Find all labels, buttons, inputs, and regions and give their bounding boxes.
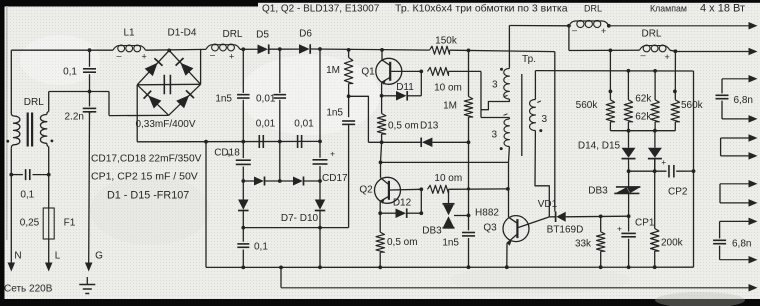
svg-text:2.2n: 2.2n bbox=[65, 112, 84, 123]
svg-text:DB3: DB3 bbox=[422, 226, 442, 237]
svg-text:0,33mF/400V: 0,33mF/400V bbox=[135, 119, 195, 130]
svg-text:L: L bbox=[55, 251, 61, 262]
svg-text:DRL: DRL bbox=[222, 29, 242, 40]
svg-text:–: – bbox=[117, 50, 122, 60]
svg-text:Q2: Q2 bbox=[359, 185, 373, 196]
svg-text:3: 3 bbox=[542, 114, 548, 125]
svg-text:–: – bbox=[641, 50, 646, 60]
svg-text:150k: 150k bbox=[435, 36, 458, 47]
svg-text:+: + bbox=[330, 149, 335, 159]
svg-text:1M: 1M bbox=[326, 65, 340, 76]
svg-text:CD17,CD18 22mF/350V: CD17,CD18 22mF/350V bbox=[91, 154, 202, 165]
svg-text:+: + bbox=[601, 26, 606, 36]
svg-text:1n5: 1n5 bbox=[215, 94, 232, 105]
svg-text:Сеть 220В: Сеть 220В bbox=[4, 284, 53, 295]
svg-text:+: + bbox=[142, 51, 147, 61]
svg-text:–: – bbox=[210, 50, 215, 60]
svg-text:H882: H882 bbox=[475, 208, 499, 219]
svg-text:200k: 200k bbox=[661, 237, 684, 248]
svg-text:6,8n: 6,8n bbox=[734, 95, 753, 106]
svg-text:33k: 33k bbox=[575, 238, 592, 249]
svg-text:560k: 560k bbox=[681, 100, 704, 111]
svg-text:L1: L1 bbox=[123, 28, 135, 39]
svg-text:0,01: 0,01 bbox=[294, 119, 314, 130]
svg-text:1n5: 1n5 bbox=[442, 238, 459, 249]
svg-text:0,01: 0,01 bbox=[256, 94, 276, 105]
svg-text:CD17: CD17 bbox=[322, 173, 348, 184]
svg-text:4 x 18 Вт: 4 x 18 Вт bbox=[700, 3, 745, 15]
svg-text:0,1: 0,1 bbox=[254, 242, 268, 253]
svg-text:62k: 62k bbox=[635, 111, 652, 122]
svg-text:Q3: Q3 bbox=[483, 223, 497, 234]
svg-text:N: N bbox=[14, 251, 21, 262]
svg-text:DRL: DRL bbox=[584, 4, 602, 14]
svg-text:G: G bbox=[95, 251, 103, 262]
svg-text:6,8n: 6,8n bbox=[732, 238, 751, 249]
svg-text:BT169D: BT169D bbox=[547, 225, 584, 236]
svg-text:DRL: DRL bbox=[24, 97, 44, 108]
svg-text:+: + bbox=[665, 52, 670, 62]
svg-text:+: + bbox=[227, 150, 232, 160]
svg-text:D11: D11 bbox=[396, 82, 414, 93]
svg-text:CP1, CP2 15 mF / 50V: CP1, CP2 15 mF / 50V bbox=[91, 171, 198, 183]
svg-text:D14, D15: D14, D15 bbox=[578, 140, 621, 151]
svg-text:0,5 om: 0,5 om bbox=[387, 237, 418, 248]
svg-text:1n5: 1n5 bbox=[326, 108, 343, 119]
svg-text:3: 3 bbox=[492, 80, 498, 91]
svg-text:Тр. К10х6х4 три обмотки по: Тр. К10х6х4 три обмотки по 3 витка bbox=[395, 3, 568, 15]
svg-text:D13: D13 bbox=[420, 121, 439, 132]
svg-text:10 om: 10 om bbox=[434, 83, 462, 94]
svg-text:CP1: CP1 bbox=[635, 218, 655, 229]
svg-text:10 om: 10 om bbox=[434, 173, 462, 184]
svg-text:DRL: DRL bbox=[641, 29, 661, 40]
svg-text:D12: D12 bbox=[393, 197, 412, 208]
svg-text:D1-D4: D1-D4 bbox=[168, 28, 197, 39]
svg-text:F1: F1 bbox=[64, 218, 76, 229]
svg-text:–: – bbox=[572, 25, 577, 35]
svg-text:+: + bbox=[229, 52, 234, 62]
svg-text:62k: 62k bbox=[635, 94, 652, 105]
svg-text:1M: 1M bbox=[443, 101, 457, 112]
svg-text:560k: 560k bbox=[576, 100, 599, 111]
svg-text:+: + bbox=[617, 223, 622, 233]
svg-text:D7- D10: D7- D10 bbox=[281, 213, 319, 224]
svg-text:Q1: Q1 bbox=[361, 67, 375, 78]
svg-text:0,25: 0,25 bbox=[20, 218, 40, 229]
svg-text:Клампам: Клампам bbox=[650, 4, 687, 14]
svg-text:+: + bbox=[661, 158, 666, 167]
svg-text:CP2: CP2 bbox=[668, 186, 688, 197]
svg-text:0,1: 0,1 bbox=[20, 190, 34, 201]
svg-text:0,01: 0,01 bbox=[256, 119, 276, 130]
svg-text:D5: D5 bbox=[256, 30, 269, 41]
svg-text:3: 3 bbox=[491, 130, 497, 141]
svg-text:0,5 om: 0,5 om bbox=[388, 121, 419, 132]
svg-text:Q1, Q2 - BLD137, E13007: Q1, Q2 - BLD137, E13007 bbox=[262, 4, 380, 15]
svg-text:Тр.: Тр. bbox=[522, 54, 536, 65]
svg-text:0,1: 0,1 bbox=[63, 67, 77, 78]
svg-text:DB3: DB3 bbox=[588, 186, 608, 197]
svg-text:D1 - D15 -FR107: D1 - D15 -FR107 bbox=[107, 190, 189, 202]
svg-text:D6: D6 bbox=[299, 29, 312, 40]
